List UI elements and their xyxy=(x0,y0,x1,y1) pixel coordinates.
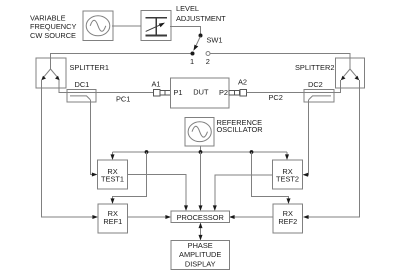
svg-text:VARIABLE: VARIABLE xyxy=(30,13,66,22)
label LEVEL ADJUSTMENT xyxy=(176,4,226,23)
svg-text:TEST2: TEST2 xyxy=(276,175,299,184)
wire RX REF1 to processor xyxy=(128,216,168,218)
svg-text:A1: A1 xyxy=(152,80,161,89)
svg-text:TEST1: TEST1 xyxy=(101,175,124,184)
wire bus to RX REF1 LO xyxy=(113,152,147,201)
label REFERENCE OSCILLATOR xyxy=(217,118,263,134)
switch SW1 contact 2 xyxy=(206,52,210,56)
svg-text:DUT: DUT xyxy=(193,88,209,97)
svg-text:REF2: REF2 xyxy=(278,217,297,226)
wire bus to RX REF2 LO xyxy=(252,152,289,201)
svg-text:P1: P1 xyxy=(174,88,183,97)
wire reference bus xyxy=(113,151,288,153)
wire processor to display bidirectional xyxy=(199,223,203,241)
wire splitter2 right output to RX REF2 xyxy=(307,80,360,217)
directional coupler DC1 xyxy=(67,90,96,103)
wire bus to RX TEST2 LO xyxy=(286,152,288,157)
display phase amplitude xyxy=(171,241,230,270)
switch SW1 arm xyxy=(193,37,200,51)
splitter SPLITTER1 xyxy=(36,58,66,88)
wire DC1 coupled port to RX TEST1 xyxy=(91,100,95,175)
wire A2 to DC2 through line xyxy=(247,91,335,93)
svg-text:OSCILLATOR: OSCILLATOR xyxy=(217,125,263,134)
svg-text:DC1: DC1 xyxy=(75,80,90,89)
wire splitter1 right output to DC1 xyxy=(59,80,67,92)
svg-text:A2: A2 xyxy=(238,77,247,86)
attenuator A1 xyxy=(154,89,171,96)
connector and attenuator A2 xyxy=(229,89,247,96)
svg-text:DISPLAY: DISPLAY xyxy=(185,259,216,268)
wire level adjustment to switch pole xyxy=(170,26,201,35)
splitter SPLITTER2 xyxy=(336,58,365,88)
svg-text:LEVEL: LEVEL xyxy=(176,4,199,13)
wire reference oscillator to processor xyxy=(200,152,202,208)
svg-text:P2: P2 xyxy=(219,88,228,97)
svg-text:PC1: PC1 xyxy=(116,94,130,103)
svg-text:AMPLITUDE: AMPLITUDE xyxy=(179,250,221,259)
oscillator G1 variable frequency CW source xyxy=(83,11,113,41)
attenuator level adjustment xyxy=(141,11,171,41)
wire switch throw 2 to splitter2 xyxy=(210,54,350,70)
svg-text:SPLITTER1: SPLITTER1 xyxy=(70,63,109,72)
switch SW1 pole junction xyxy=(199,34,203,38)
node bus junction right xyxy=(250,150,254,154)
svg-text:1: 1 xyxy=(190,57,194,66)
receiver RX REF1 xyxy=(98,204,128,233)
oscillator reference xyxy=(185,118,214,147)
svg-text:CW SOURCE: CW SOURCE xyxy=(30,31,76,40)
wire DC2 coupled port to RX TEST2 xyxy=(306,100,309,175)
wire reference oscillator to bus xyxy=(200,146,202,152)
wire DC1 through line to A1 xyxy=(67,91,154,93)
wire source to level adjustment xyxy=(112,25,141,27)
svg-text:ADJUSTMENT: ADJUSTMENT xyxy=(176,14,226,23)
svg-text:REF1: REF1 xyxy=(103,217,122,226)
svg-text:SPLITTER2: SPLITTER2 xyxy=(295,63,334,72)
wire RX REF2 to processor xyxy=(233,216,274,218)
svg-text:SW1: SW1 xyxy=(207,36,223,45)
svg-text:PROCESSOR: PROCESSOR xyxy=(177,213,224,222)
wire splitter1 left output to RX REF1 xyxy=(42,80,95,217)
node bus junction center xyxy=(199,150,203,154)
wire RX TEST2 to processor xyxy=(215,175,273,208)
receiver RX TEST2 xyxy=(273,160,303,189)
svg-text:FREQUENCY: FREQUENCY xyxy=(30,22,76,31)
svg-text:PC2: PC2 xyxy=(269,93,283,102)
wire splitter2 left output to DC2 xyxy=(334,80,341,92)
processor U1 xyxy=(171,211,230,223)
receiver RX TEST1 xyxy=(98,160,128,189)
device under test DUT xyxy=(171,78,230,108)
label VARIABLE FREQUENCY CW SOURCE xyxy=(30,13,76,39)
wire RX TEST1 to processor xyxy=(128,175,187,209)
svg-text:2: 2 xyxy=(206,57,210,66)
svg-text:PHASE: PHASE xyxy=(188,241,213,250)
svg-text:DC2: DC2 xyxy=(308,80,323,89)
switch SW1 contact 1 xyxy=(191,52,195,56)
wire switch throw 1 to splitter1 xyxy=(51,54,193,70)
directional coupler DC2 xyxy=(304,90,334,103)
node bus junction left xyxy=(145,150,149,154)
receiver RX REF2 xyxy=(273,204,303,233)
wire bus to RX TEST1 LO xyxy=(112,152,114,157)
